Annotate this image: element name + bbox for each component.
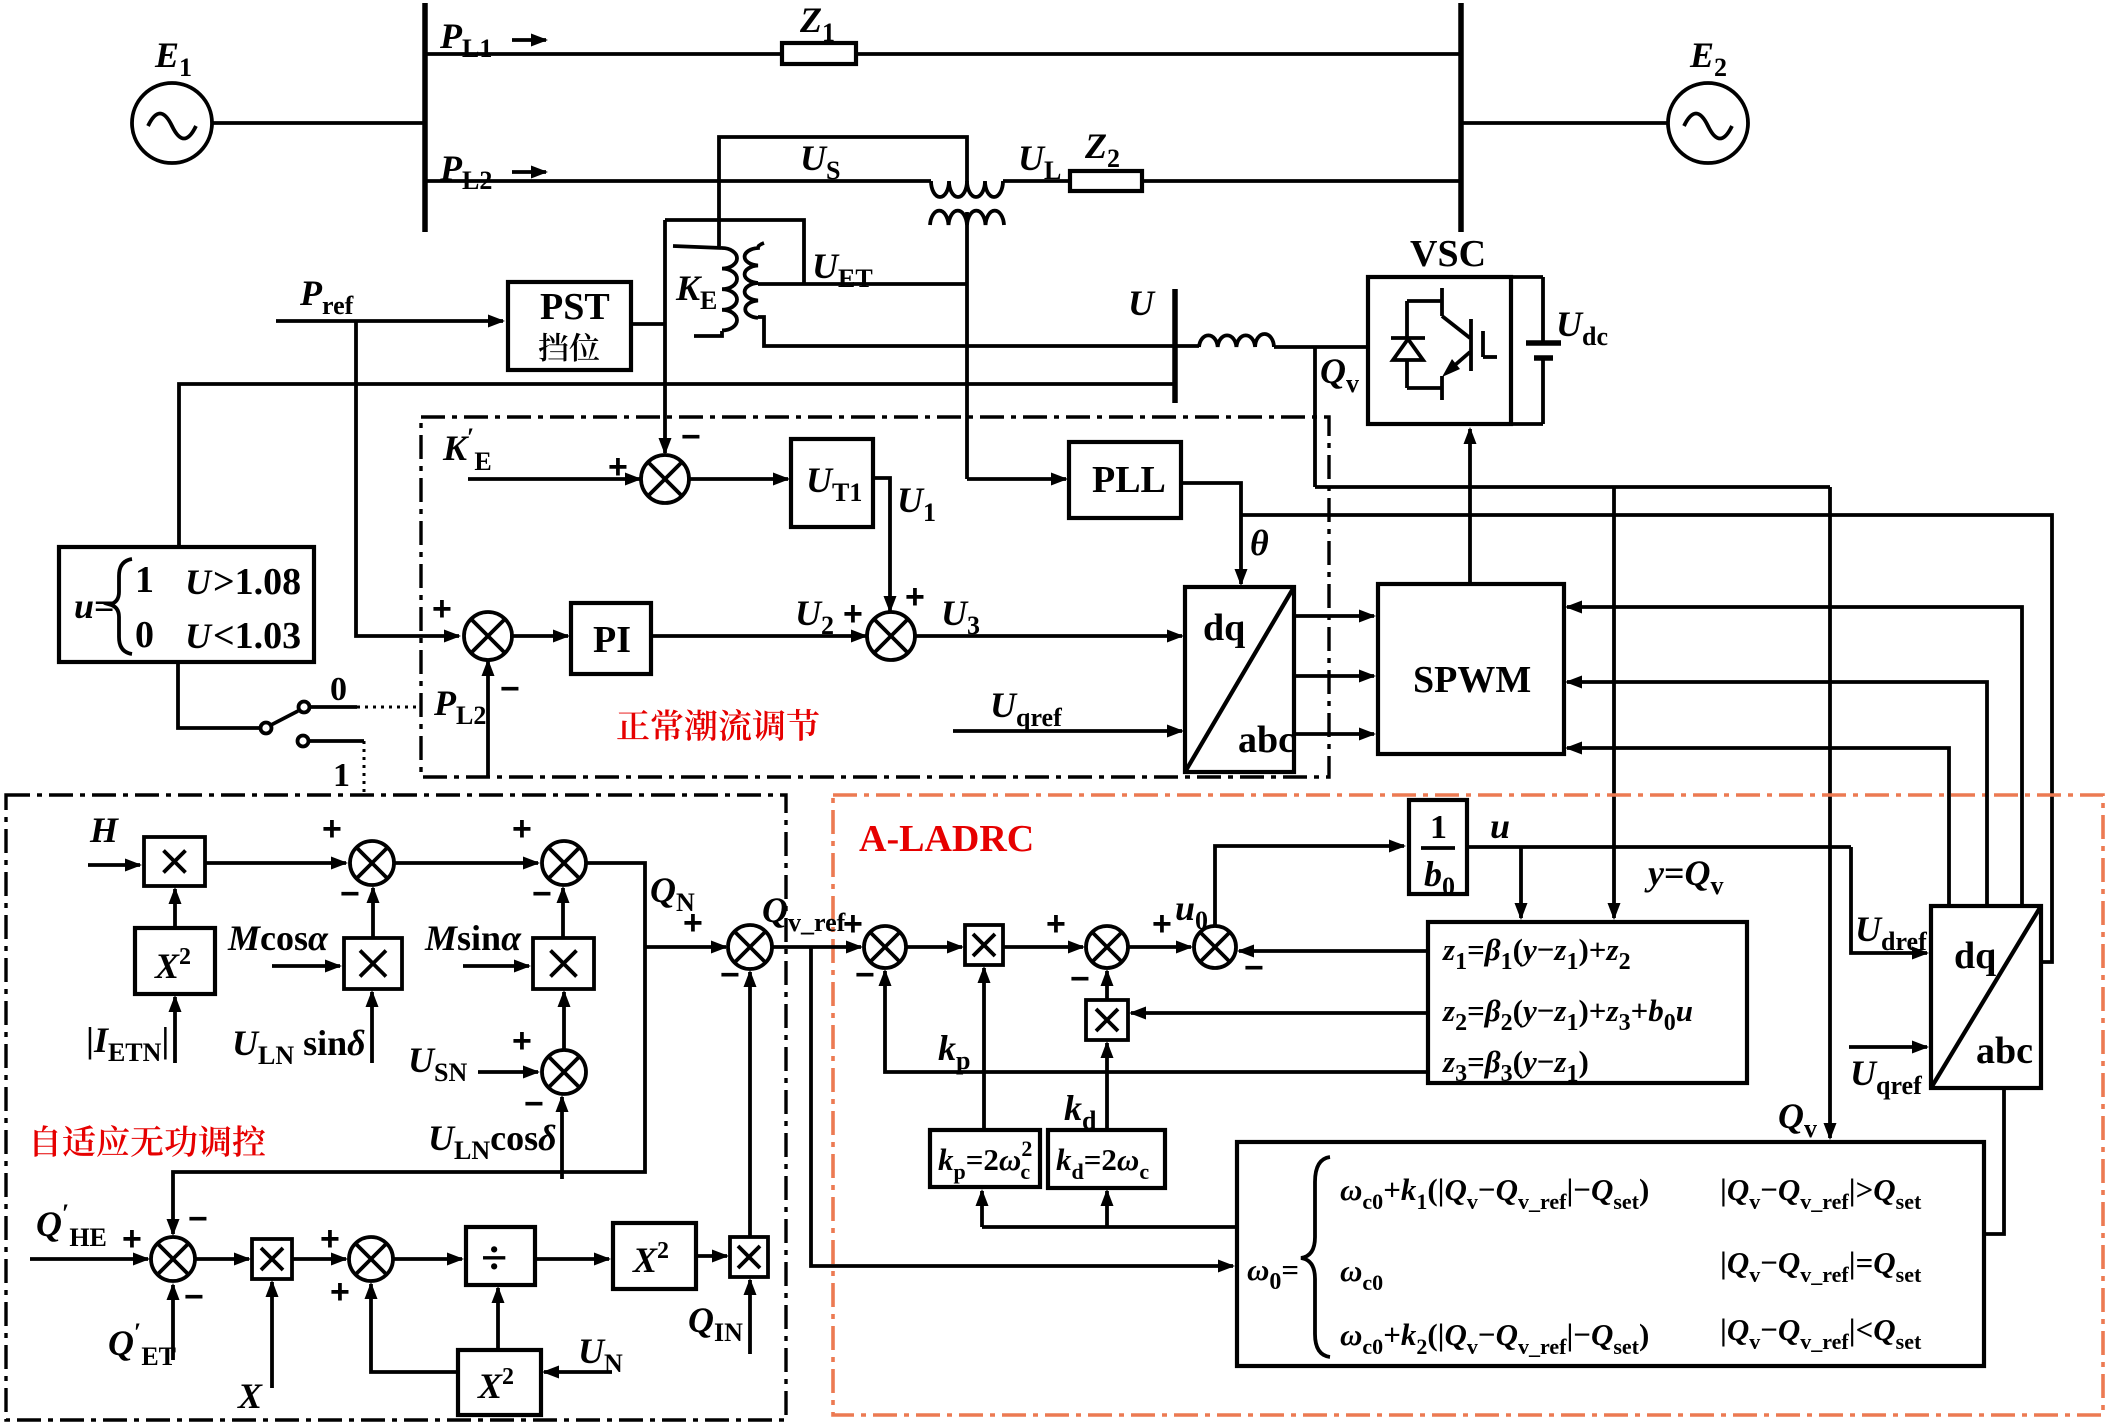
wire PL2 arrow (512, 170, 546, 174)
wire bus2 to E2 (1461, 121, 1668, 125)
svg-text:PST: PST (540, 286, 610, 328)
svg-text:Mcosα: Mcosα (227, 918, 329, 958)
summing junction A (864, 926, 906, 968)
summing junction S3 (728, 925, 772, 969)
wire PLL theta (1181, 483, 1241, 584)
wire IETN input (173, 997, 177, 1063)
inductor converter reactor (1199, 334, 1274, 347)
summing junction S2 (542, 841, 586, 885)
svg-text:PI: PI (593, 619, 631, 661)
wire sum1 to PI (510, 634, 568, 638)
transformer KE primary winding (673, 246, 722, 248)
svg-text:+: + (843, 905, 863, 943)
svg-text:VSC: VSC (1410, 233, 1486, 275)
dashed box A-LADRC (orange) (833, 795, 2103, 1415)
wire Qv horizontal (1315, 485, 1830, 489)
block VSC box (1368, 277, 1511, 424)
summing junction 2 (867, 612, 915, 660)
wire Xsq right to mult5 (696, 1254, 727, 1258)
svg-text:SPWM: SPWM (1413, 659, 1531, 701)
wire PL2 feedback (486, 661, 490, 777)
svg-text:0: 0 (330, 671, 347, 708)
wire S1 to S2 (394, 861, 538, 865)
summing junction K (641, 455, 689, 503)
wire U1 (872, 478, 890, 611)
wire to PLL (967, 477, 1066, 481)
impedance Z2 (1070, 171, 1142, 191)
wire PST output (631, 322, 665, 326)
wire US tap jumper (719, 137, 967, 246)
svg-text:>1.08: >1.08 (213, 561, 301, 603)
summing junction 1 (464, 612, 512, 660)
wire dq1 out b (1294, 674, 1374, 678)
wire Pref to PST (276, 319, 503, 323)
wire excitation to PLL vertical (965, 212, 969, 479)
diode D (1405, 301, 1409, 338)
wire Qv to omega box (1828, 487, 1832, 1138)
wire dc rail (1511, 275, 1543, 279)
svg-text:−: − (1070, 960, 1090, 998)
svg-text:abc: abc (1976, 1030, 2033, 1072)
multiplier kd (1086, 1000, 1128, 1040)
wire QHE input (30, 1257, 148, 1261)
block X squared bottom (458, 1350, 541, 1415)
wire kd mult to sumB (1105, 971, 1109, 1000)
wire QET input (171, 1285, 175, 1360)
wire z3 feedback to sumA (885, 971, 1428, 1072)
svg-text:−: − (188, 1200, 208, 1238)
wire y equals Qv branch (1612, 487, 1616, 918)
wire line2 right (1142, 179, 1461, 183)
svg-text:U: U (1128, 283, 1156, 323)
transformer KE secondary winding (745, 243, 764, 318)
svg-text:÷: ÷ (481, 1232, 507, 1285)
block 1/b0 (1409, 800, 1467, 894)
AC source E1 (132, 83, 212, 163)
svg-text:dq: dq (1954, 935, 1996, 977)
block UT1 (791, 439, 873, 527)
label normal flow control (red) (617, 710, 649, 739)
wire S6 to divide (393, 1257, 462, 1261)
svg-text:u: u (1490, 806, 1510, 846)
svg-text:−: − (500, 670, 520, 708)
multiplier 5 (730, 1237, 768, 1277)
wire mult2 to S1 (371, 888, 375, 938)
block dq abc transform 2 (1931, 906, 2041, 1088)
svg-text:+: + (512, 1022, 532, 1060)
svg-text:+: + (608, 448, 628, 486)
wire QIN input (748, 1280, 752, 1354)
block kp equation (930, 1130, 1040, 1187)
svg-text:+: + (322, 810, 342, 848)
svg-text:kp​=2ω2c: kp​=2ω2c (938, 1136, 1032, 1184)
wire E1 to bus1 (212, 121, 425, 125)
wire diode loop (1407, 299, 1442, 303)
wire KE-prime vertical to sum (663, 220, 667, 453)
svg-text:−: − (1244, 949, 1264, 987)
wire dq2 to SPWM a (1567, 607, 2022, 904)
bus bar 2 (1458, 3, 1464, 232)
bus bar 1 (422, 3, 428, 232)
multiplier 2 (344, 938, 402, 989)
wire to sumB (1003, 945, 1083, 949)
block observer z equations (1428, 922, 1747, 1083)
wire line2 left (425, 179, 931, 183)
wire contact 1 (309, 739, 364, 743)
svg-text:X: X (237, 1376, 263, 1416)
wire sumB to sumC (1128, 945, 1191, 949)
svg-text:+: + (683, 904, 703, 942)
wire KEprime to sum (468, 477, 640, 481)
wire ULNcosd input (560, 1097, 564, 1179)
svg-text:<1.03: <1.03 (213, 615, 301, 657)
wire kp gain (982, 968, 986, 1130)
wire Xsq bottom to S6 (371, 1284, 458, 1372)
wire dq2 output down to omega box (1986, 1088, 2004, 1234)
dashed box normal power flow control (421, 417, 1329, 777)
block SPWM (1378, 584, 1564, 754)
PST series winding (931, 181, 1003, 197)
svg-text:PLL: PLL (1092, 459, 1166, 501)
svg-text:+: + (1152, 905, 1172, 943)
wire omega0 to gains (982, 1225, 1237, 1229)
wire Uqref2 (1849, 1045, 1927, 1049)
svg-text:+: + (320, 1220, 340, 1258)
wire UET line (758, 282, 967, 286)
wire Qvref to sumA (773, 945, 861, 949)
block dq abc transform 1 (1185, 587, 1294, 772)
block PLL (1069, 442, 1181, 518)
label adaptive reactive control (red) (34, 1125, 57, 1156)
svg-text:−: − (340, 875, 360, 913)
switch contact 0 (299, 702, 310, 713)
svg-text:+: + (330, 1273, 350, 1311)
wire dq1 out a (1294, 614, 1374, 618)
block divide (466, 1227, 535, 1285)
svg-text:Msinα: Msinα (424, 918, 522, 958)
summing junction S1 (350, 841, 394, 885)
wire contact 0 (310, 705, 357, 709)
svg-text:H: H (89, 810, 119, 850)
svg-text:0: 0 (135, 614, 154, 656)
svg-text:+: + (843, 595, 863, 633)
wire dq2 to SPWM c (1567, 748, 1949, 904)
wire z1 feedback to sumC (1239, 949, 1428, 953)
wire SPWM to VSC (1468, 429, 1472, 584)
impedance Z1 (782, 43, 856, 64)
wire Qv tap (1313, 347, 1317, 487)
dashed box adaptive reactive control (6, 795, 786, 1420)
wire Msina input (463, 964, 529, 968)
wire dq2 to SPWM b (1567, 682, 1987, 904)
svg-text:U: U (185, 562, 213, 602)
block PST tap changer (508, 282, 631, 370)
block PI (571, 603, 651, 674)
wire QN to S3 (645, 945, 726, 949)
svg-text:ULN​ sinδ: ULN​ sinδ (232, 1023, 366, 1070)
svg-text:−: − (855, 956, 875, 994)
brace (1301, 1157, 1330, 1357)
wire u0 to b0 block (1215, 846, 1404, 926)
svg-text:1: 1 (1430, 809, 1447, 846)
svg-text:θ: θ (1250, 523, 1269, 563)
svg-text:abc: abc (1238, 719, 1295, 761)
svg-text:+: + (122, 1220, 142, 1258)
svg-text:−: − (184, 1278, 204, 1316)
summing junction S5 (151, 1237, 195, 1281)
wire Pref branch down (356, 321, 459, 636)
wire USN input (478, 1070, 538, 1074)
multiplier 4 (252, 1239, 292, 1279)
wire Xsq to mult (173, 889, 177, 928)
svg-text:dq: dq (1203, 607, 1245, 649)
switch common contact (261, 723, 272, 734)
wire line1 left (425, 52, 782, 56)
wire U measurement line (179, 384, 1175, 547)
svg-text:+: + (905, 578, 925, 616)
wire divide to Xsq right (535, 1257, 609, 1261)
wire mult3 to S2 (561, 888, 565, 938)
wire u line (1467, 845, 1851, 849)
wire Xsq bottom to divide (496, 1288, 500, 1350)
multiplier 3 (533, 938, 594, 989)
wire H mult to sum1a (205, 861, 346, 865)
wire Qvref branch to omega box (811, 947, 1233, 1266)
wire ULNsind input (370, 992, 374, 1063)
svg-text:A-LADRC: A-LADRC (859, 818, 1034, 860)
block omega0 adaptive law (1237, 1142, 1984, 1366)
wire u to z block (1519, 847, 1523, 918)
wire mult4 to S6 (292, 1257, 346, 1261)
wire u box to switch (178, 662, 259, 728)
PST excitation winding (930, 211, 1004, 225)
wire U2 (651, 634, 866, 638)
svg-text:ULN​cosδ: ULN​cosδ (428, 1118, 557, 1165)
wire KE secondary to U bus (758, 317, 1199, 346)
svg-text:1: 1 (333, 757, 350, 794)
wire dq1 out c (1294, 732, 1374, 736)
wire sumA to kp mult (906, 945, 962, 949)
block kd equation (1048, 1130, 1165, 1188)
AC source E2 (1668, 83, 1748, 163)
svg-text:+: + (512, 810, 532, 848)
wire theta to dq2 (1241, 515, 2052, 962)
svg-text:−: − (720, 956, 740, 994)
summing junction B (1086, 926, 1128, 968)
wire QN route (173, 863, 645, 1234)
wire reactor to VSC (1274, 345, 1368, 349)
wire kd gain (1105, 1043, 1109, 1130)
summing junction S4 (542, 1050, 586, 1094)
wire KE loop top (665, 220, 804, 284)
wire mult5 to S3 (748, 972, 752, 1237)
wire S5 to mult4 (195, 1257, 249, 1261)
summing junction C (1194, 926, 1236, 968)
svg-text:−: − (681, 418, 701, 456)
wire X input (270, 1282, 274, 1388)
svg-text:U: U (185, 616, 213, 656)
block X squared top (135, 928, 215, 994)
node U bus bar (1172, 289, 1178, 403)
wire Uqref (953, 729, 1182, 733)
wire Mcosa input (272, 964, 340, 968)
wire sumK to UT1 (687, 477, 788, 481)
transistor IGBT (1440, 288, 1444, 316)
block u selector (59, 547, 314, 662)
multiplier kp (965, 925, 1003, 965)
wire UN input (544, 1370, 612, 1374)
wire u to Udref (1851, 847, 1927, 953)
multiplier H (144, 837, 205, 886)
wire U3 (913, 634, 1182, 638)
summing junction S6 (349, 1237, 393, 1281)
switch contact 1 (298, 736, 309, 747)
wire line1 right (856, 52, 1461, 56)
wire z2 feedback to kd mult (1131, 1011, 1428, 1015)
svg-text:+: + (1046, 905, 1066, 943)
svg-text:+: + (432, 590, 452, 628)
svg-text:−: − (532, 875, 552, 913)
capacitor Udc (1526, 340, 1561, 346)
wire S4 to mult3 (562, 992, 566, 1049)
wire line2 mid (1003, 179, 1070, 183)
switch blade (271, 711, 298, 725)
wire H input (88, 863, 140, 867)
svg-text:1: 1 (135, 559, 154, 601)
wire PL1 arrow (512, 38, 546, 42)
block X squared right (613, 1223, 696, 1289)
